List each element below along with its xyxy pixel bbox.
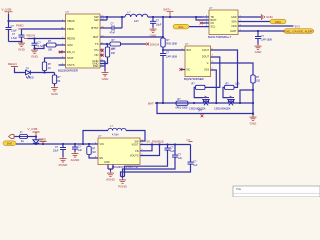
capacitor C3 REGN (32, 39, 45, 49)
svg-text:1.5uF: 1.5uF (11, 37, 18, 40)
wire BAT pin (100, 36, 163, 38)
svg-text:3V3: 3V3 (295, 24, 301, 28)
wire TS net (121, 43, 147, 45)
wire PMID to pin (22, 28, 66, 30)
ground (31, 49, 39, 59)
inductor L1 (125, 10, 148, 23)
svg-text:SDA: SDA (275, 20, 281, 24)
svg-text:BQ29700DSER: BQ29700DSER (184, 77, 204, 81)
svg-text:5V0: 5V0 (7, 142, 13, 146)
node junction 34.5,48.5 (33, 47, 35, 49)
svg-text:BAT-: BAT- (148, 101, 154, 105)
wire SDA (238, 21, 270, 23)
resistor R7 gate2 (225, 82, 240, 89)
svg-text:BTST: BTST (91, 26, 98, 30)
pin NC stub with no-erc (179, 68, 185, 71)
svg-text:GND: GND (102, 77, 110, 81)
power flag 5V0 (187, 138, 193, 142)
node junction 194,103 (193, 102, 195, 104)
svg-text:1.5uF: 1.5uF (11, 29, 18, 32)
svg-text:1uH: 1uH (134, 20, 139, 23)
capacitor C9 input (72, 144, 82, 152)
net label SDA oval (270, 19, 286, 24)
node junction 105,63.5 (104, 62, 106, 64)
wire node to R3 (54, 73, 56, 76)
svg-text:VOUTS: VOUTS (130, 155, 139, 158)
wire inductor loop (83, 131, 145, 145)
svg-text:AGND: AGND (71, 158, 81, 162)
capacitor C11 output (123, 145, 183, 177)
wire fuse to junction (28, 136, 37, 138)
svg-text:GND: GND (104, 161, 110, 164)
pin NC stub with no-erc (200, 22, 209, 25)
node junction 122,17 (121, 16, 123, 18)
svg-text:BAT: BAT (93, 35, 99, 39)
IC U2 fuel gauge MAX17048 (208, 6, 238, 39)
svg-text:VIN: VIN (100, 143, 104, 146)
wire gate2 lead (223, 87, 228, 97)
svg-text:PAD: PAD (93, 64, 99, 68)
svg-text:R05-1608: R05-1608 (166, 42, 177, 45)
svg-text:4.7uH: 4.7uH (112, 133, 119, 136)
node junction 258,31 (257, 30, 259, 32)
capacitor C4 bootstrap (110, 23, 116, 35)
capacitor C10 output (125, 145, 175, 177)
power port REGN (24, 34, 35, 39)
node junction 253,113.5 (252, 112, 254, 114)
svg-text:BAT: BAT (187, 49, 192, 52)
pin numbers U2 (206, 15, 242, 31)
node junction 253,103 (252, 102, 254, 104)
ground (150, 28, 158, 38)
no-erc cross TS (146, 43, 149, 46)
svg-text:GND: GND (231, 16, 237, 19)
power port V_USB (2, 7, 13, 14)
svg-text:4.7uF: 4.7uF (38, 45, 45, 48)
wire ALRT (238, 30, 284, 32)
wire REGN to LED (15, 68, 26, 73)
ground (102, 71, 110, 81)
node junction 75,144 (74, 143, 76, 145)
svg-text:COUT: COUT (202, 49, 210, 52)
svg-text:STAT: STAT (67, 56, 74, 60)
svg-text:GND: GND (266, 15, 274, 19)
ground (250, 116, 258, 126)
ground (118, 178, 128, 188)
svg-text:1uF: 1uF (78, 149, 83, 152)
svg-text:10K: 10K (112, 48, 117, 51)
svg-text:VBUS: VBUS (67, 19, 75, 23)
node junction 163,103 (162, 102, 164, 104)
transistor Q1 FET (189, 96, 210, 110)
svg-text:100: 100 (235, 82, 240, 85)
node junction 107,44 (106, 43, 108, 45)
svg-text:PMID: PMID (16, 24, 24, 28)
svg-text:22uF: 22uF (53, 150, 59, 153)
wire boost input rail (16, 143, 98, 145)
node junction 83,144 (82, 143, 84, 145)
power port REGN (STAT led) (8, 62, 18, 68)
resistor R5 TS pulldown (105, 44, 116, 64)
node junction 153,17 (152, 16, 154, 18)
svg-text:C?: C? (187, 138, 191, 142)
svg-text:BQ25606RGER: BQ25606RGER (58, 69, 78, 73)
svg-text:30K: 30K (48, 48, 53, 51)
pin PG stub (100, 49, 104, 51)
svg-text:SDA: SDA (231, 20, 236, 23)
svg-text:PGND: PGND (59, 163, 69, 167)
svg-text:CSD16406Q5A: CSD16406Q5A (214, 107, 231, 110)
svg-text:1M: 1M (92, 151, 95, 154)
svg-text:TP?: TP? (198, 110, 203, 113)
node junction 43,144 (42, 143, 44, 145)
node junction 152,144.5 (151, 143, 153, 145)
wire GND pin right (238, 16, 261, 18)
svg-text:REGN: REGN (8, 62, 17, 66)
node junction 157,103 (156, 102, 158, 104)
wire C4 to SW node (114, 17, 122, 28)
svg-text:0R01-1608: 0R01-1608 (176, 107, 188, 110)
svg-text:ALRT: ALRT (230, 30, 237, 33)
transistor Q2 FET (214, 96, 235, 110)
svg-text:BAT+: BAT+ (164, 8, 172, 12)
net label FUEL_GAUGE_ALERT oval (284, 29, 315, 34)
node junction 8.5,21 (7, 20, 9, 22)
resistor R2 STAT 1K (42, 58, 65, 73)
port USB input arrow (9, 135, 14, 139)
wire VDD 3V3 (238, 25, 294, 27)
ground (106, 172, 116, 182)
node junction 36,144 (35, 143, 37, 145)
svg-text:GND: GND (255, 50, 263, 54)
ground right rotated (261, 14, 273, 20)
IC U3 battery protection BQ29700 (184, 42, 211, 81)
node junction 107,17 (106, 16, 108, 18)
node junction 163,17 (162, 16, 164, 18)
svg-text:1uF: 1uF (193, 164, 198, 167)
ground (51, 86, 59, 96)
svg-text:EN: EN (100, 157, 104, 160)
wire pack negative lower (157, 103, 253, 114)
wire DOUT to gate resistor R8 (205, 57, 220, 87)
no-erc NC pin (101, 54, 104, 57)
svg-text:U?: U? (98, 134, 102, 138)
resistor R9 (251, 75, 261, 83)
svg-text:FB: FB (135, 150, 139, 153)
wire REGN to pin (28, 38, 66, 40)
ground (71, 152, 81, 162)
node junction 253,90 (252, 89, 254, 91)
node junction 89,144 (88, 143, 90, 145)
svg-text:100: 100 (256, 80, 261, 83)
node junction 170,17 (169, 16, 171, 18)
svg-text:VSS: VSS (204, 68, 209, 71)
wire FB riser (140, 145, 152, 151)
wire VOUTS riser (140, 145, 160, 156)
svg-text:1uF: 1uF (170, 150, 175, 153)
svg-text:VDD: VDD (231, 25, 236, 28)
wire VSS down (211, 70, 217, 103)
power port PMID (16, 24, 25, 29)
inductor L2 (108, 124, 126, 136)
pin numbers U4 (95, 139, 144, 158)
svg-text:TS: TS (95, 42, 99, 46)
pin NC stub (100, 54, 104, 56)
capacitor C7 fuel gauge (255, 31, 273, 45)
node junction 175,144.5 (174, 143, 176, 145)
node junction 216.3,103 (215, 102, 217, 104)
svg-text:DISCH: DISCH (150, 42, 159, 46)
node junction 63,144 (62, 143, 64, 145)
power port V_USB lower (28, 127, 40, 137)
wire R10 to EN pin (89, 144, 98, 158)
wire VOUT rail (140, 144, 191, 146)
no-erc lower wire (201, 114, 204, 117)
wire SCL (189, 26, 209, 28)
wire LED to node (30, 72, 54, 74)
pin CE stub with no-erc (59, 51, 66, 54)
wire V- to right rail (211, 63, 254, 75)
wire R9 down to ground (252, 83, 254, 116)
resistor R3 pulldown (52, 75, 61, 84)
LED D1 status (26, 67, 34, 79)
svg-text:NC: NC (94, 53, 98, 57)
svg-text:10K: 10K (111, 52, 116, 55)
svg-text:U?: U? (209, 6, 213, 10)
wire R1 to ILIM pin (56, 44, 66, 46)
svg-text:SCL: SCL (178, 25, 184, 29)
wire VDD to BAT pin of U3 (163, 49, 185, 51)
svg-text:GND: GND (250, 122, 258, 126)
svg-text:5K: 5K (57, 80, 60, 83)
wire BAT- rail (155, 102, 253, 104)
svg-text:CAP-1608: CAP-1608 (261, 39, 273, 42)
node junction 159.5,144.5 (158, 143, 160, 145)
power port BAT+ (164, 8, 174, 17)
svg-text:ILIM: ILIM (67, 43, 73, 47)
pin numbers U1 (61, 15, 104, 66)
no-erc PG pin (101, 49, 104, 52)
pin VSYS stub (59, 64, 66, 66)
svg-text:SCL: SCL (211, 25, 216, 28)
svg-text:5V_ENABLE: 5V_ENABLE (147, 140, 164, 144)
svg-text:1uF: 1uF (178, 157, 183, 160)
capacitor C1 input (6, 21, 18, 42)
svg-text:GND: GND (31, 55, 39, 59)
resistor R6 TS series (110, 39, 121, 50)
net label 5V0 oval (3, 141, 16, 146)
resistor R8 gate1 (192, 82, 206, 89)
svg-text:GND: GND (18, 48, 26, 52)
wire R3 to ground (54, 84, 56, 87)
title block (233, 186, 320, 197)
wire pack sense to V- (240, 90, 253, 103)
node junction 196,17 (195, 16, 197, 18)
node junction 34.5,38.5 (33, 37, 35, 39)
svg-text:10uF: 10uF (156, 23, 162, 26)
op-amp U1 charger IC BQ25606 (58, 10, 100, 73)
svg-text:CAP-1608: CAP-1608 (166, 55, 178, 58)
capacitor C12 output (121, 145, 198, 177)
svg-text:EN_N: EN_N (67, 50, 74, 54)
svg-text:U?: U? (66, 10, 70, 14)
node junction 21.5,41.5 (20, 40, 22, 42)
diode D2 TVS (33, 137, 44, 145)
svg-text:REGN: REGN (27, 34, 36, 38)
capacitor C2 PMID (11, 29, 25, 42)
svg-text:PGND: PGND (118, 184, 128, 188)
node junction 44.5,72.5 (43, 71, 45, 73)
capacitor C6 protection vdd (160, 52, 178, 103)
wire VBUS to pin 1 (9, 20, 66, 22)
ground (255, 45, 263, 54)
wire V_USB vertical to junction (8, 14, 10, 21)
ground (59, 157, 69, 167)
ground (18, 42, 26, 52)
resistor R10 enable (87, 147, 96, 155)
svg-text:GND: GND (51, 92, 59, 96)
wire gate1 lead (194, 87, 203, 97)
svg-text:Title: Title (236, 187, 242, 191)
svg-text:NC: NC (187, 68, 191, 71)
svg-text:DOUT: DOUT (202, 55, 210, 58)
fuse F1 (20, 131, 28, 142)
node junction 163,50 (162, 49, 164, 51)
node junction 36,136.5 (35, 135, 37, 137)
svg-text:FUEL_GAUGE_ALERT: FUEL_GAUGE_ALERT (284, 29, 315, 33)
wire ILIM resistor to ground node (35, 45, 47, 49)
pin numbers U3 (182, 48, 214, 70)
svg-text:MAX17048G8G+T: MAX17048G8G+T (208, 35, 231, 39)
svg-text:U?: U? (185, 42, 189, 46)
svg-text:VSYS: VSYS (67, 63, 75, 67)
svg-text:PMID: PMID (39, 137, 47, 141)
node junction 167.5,144.5 (166, 143, 168, 145)
wire COUT to gate resistor R7 (211, 50, 238, 87)
svg-text:2A: 2A (21, 140, 24, 143)
resistor R4 sense (161, 38, 178, 47)
wire IC4 gnd pins (108, 165, 113, 172)
svg-text:47nF: 47nF (110, 32, 116, 35)
svg-text:PG: PG (94, 48, 98, 52)
wire GND pins (100, 61, 105, 71)
svg-text:1K: 1K (48, 67, 51, 70)
wire to fuse (15, 136, 20, 138)
svg-text:AGND: AGND (106, 178, 116, 182)
wire battery rail down (162, 17, 164, 38)
svg-text:SW: SW (94, 18, 99, 22)
wire C1 to ground node (9, 41, 22, 43)
node junction 163,37 (162, 36, 164, 38)
net label SCL oval (173, 24, 189, 29)
wire BATT merge (196, 17, 209, 20)
power port PMID lower (39, 137, 47, 144)
svg-text:VOUT: VOUT (132, 144, 139, 147)
wire BTST (100, 27, 112, 29)
wire rail to TB pin (196, 16, 209, 18)
wire R4 to VDD node (162, 47, 164, 53)
wire SW pins (100, 17, 125, 20)
resistor R11 current sense (176, 98, 189, 110)
svg-text:V-: V- (207, 62, 210, 65)
svg-text:V_USB: V_USB (2, 7, 12, 11)
svg-text:V_USB: V_USB (28, 127, 38, 131)
capacitor C8 input (53, 144, 66, 157)
resistor R1 ILIM (47, 40, 57, 51)
svg-text:REGN: REGN (67, 37, 75, 41)
svg-text:PMID: PMID (67, 27, 74, 31)
wire TS (100, 43, 110, 45)
wire ground merge (121, 177, 125, 179)
IC U4 boost converter MIC23031 (98, 134, 140, 169)
capacitor C5 output (150, 17, 162, 28)
wire SYS rail (148, 16, 202, 18)
